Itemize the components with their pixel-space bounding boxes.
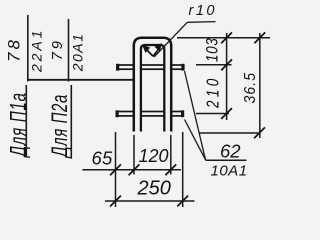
extension line E1 <box>115 132 117 207</box>
svg-text:36.5: 36.5 <box>242 72 259 104</box>
svg-text:20А1: 20А1 <box>70 33 86 73</box>
radius arrow right <box>153 48 160 57</box>
underline of Для П2а <box>70 85 72 159</box>
radius arrow left <box>145 48 153 57</box>
leader from bar1 to 62 <box>185 71 206 160</box>
dimension line 365 <box>259 33 261 138</box>
extension line at bar1 level <box>196 64 232 66</box>
tick 250 right <box>177 196 188 207</box>
cross bar 1 right end cap <box>181 64 184 71</box>
underline of 62 <box>206 159 247 161</box>
hairpin bar outer contour <box>134 38 171 132</box>
svg-text:Для П2а: Для П2а <box>48 94 73 158</box>
r10 leader diagonal <box>154 22 187 57</box>
table vertical line V1 <box>27 15 29 82</box>
bottom extension line for 365 <box>199 132 261 134</box>
cross bar 1 left end cap <box>116 64 119 71</box>
r10 leader shelf <box>187 21 215 24</box>
tick 250 left <box>110 196 121 207</box>
cross bar 2 <box>116 112 182 116</box>
table vertical line V2 <box>68 19 70 82</box>
dimension line 65/120 <box>82 169 181 171</box>
extension line at bar2 level <box>196 113 229 115</box>
svg-text:250: 250 <box>137 177 171 199</box>
svg-text:120: 120 <box>139 146 169 166</box>
tick at 365 top <box>254 32 265 43</box>
tick at 210 bottom <box>221 108 232 119</box>
svg-text:r10: r10 <box>189 3 217 19</box>
tick at 365 bottom <box>254 127 265 138</box>
extension line E3 <box>170 135 172 175</box>
hairpin tube body (masks bars) <box>137 41 167 131</box>
hairpin bar inner contour <box>141 45 164 132</box>
tick 120 left <box>129 164 140 175</box>
underline of Для П1а <box>25 85 27 157</box>
table horizontal line to bracket <box>27 79 134 81</box>
svg-text:103: 103 <box>204 38 221 62</box>
svg-text:22А1: 22А1 <box>29 28 45 73</box>
leader from bar2 to 62 <box>185 120 206 160</box>
svg-text:Для П1а: Для П1а <box>6 92 31 158</box>
svg-text:10А1: 10А1 <box>211 163 248 180</box>
dimension line 103/210 <box>226 33 228 120</box>
extension line ER <box>182 132 184 207</box>
dimension line 250 <box>105 200 195 202</box>
tick at 103/210 <box>221 59 232 70</box>
svg-text:79: 79 <box>49 38 66 60</box>
tick 120 right <box>165 164 176 175</box>
cross bar 2 left end cap <box>116 110 119 117</box>
extension line E2 <box>133 135 135 175</box>
top extension line <box>177 37 270 39</box>
svg-text:78: 78 <box>5 37 24 62</box>
svg-text:62: 62 <box>220 140 241 161</box>
cross bar 2 right end cap <box>181 110 184 117</box>
tick at 103 top <box>221 32 232 43</box>
svg-text:210: 210 <box>204 75 223 109</box>
cross bar 1 <box>117 65 183 69</box>
tick 65 left <box>110 164 121 175</box>
svg-text:65: 65 <box>92 147 113 168</box>
